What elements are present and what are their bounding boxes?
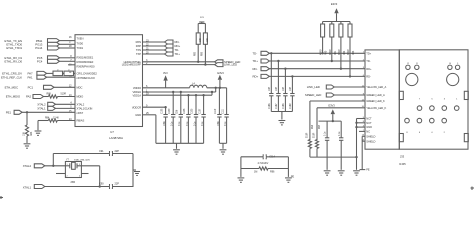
svg-text:RD-: RD- [366, 75, 371, 79]
svg-text:GND: GND [135, 113, 141, 117]
svg-text:SHIELD: SHIELD [366, 139, 375, 143]
svg-text:C107: C107 [199, 108, 201, 114]
svg-text:C103: C103 [161, 108, 163, 114]
svg-text:3V3: 3V3 [163, 71, 168, 75]
svg-text:10P: 10P [268, 87, 271, 91]
svg-text:TD+: TD+ [253, 59, 259, 63]
svg-text:VDD1A: VDD1A [132, 93, 141, 97]
svg-text:RD-: RD- [253, 67, 258, 71]
svg-text:10P: 10P [275, 87, 278, 91]
svg-text:C108: C108 [184, 108, 186, 114]
svg-text:RXD1/MODE1: RXD1/MODE1 [77, 56, 94, 60]
svg-text:100n: 100n [218, 120, 220, 126]
svg-text:22P: 22P [115, 149, 120, 153]
svg-text:RBIAS: RBIAS [77, 119, 85, 123]
svg-text:PC4: PC4 [37, 60, 43, 64]
svg-text:GREEN_LED_A: GREEN_LED_A [366, 93, 385, 97]
svg-text:10K: 10K [22, 132, 25, 136]
svg-text:R91: R91 [334, 50, 337, 55]
svg-text:RXD0/MODE0: RXD0/MODE0 [77, 60, 94, 64]
svg-text:TXP: TXP [136, 52, 141, 56]
svg-text:YELLOW_LED_K: YELLOW_LED_K [366, 106, 386, 110]
svg-text:49R9: 49R9 [347, 49, 350, 55]
svg-text:25M: 25M [71, 181, 75, 184]
svg-text:XTAL1/CLKIN: XTAL1/CLKIN [77, 107, 93, 111]
svg-text:TD-: TD- [253, 51, 258, 55]
svg-text:49R9: 49R9 [329, 49, 332, 55]
svg-text:C100: C100 [169, 108, 171, 114]
svg-text:TD+: TD+ [175, 52, 181, 56]
svg-text:10P: 10P [289, 87, 292, 91]
svg-text:U7: U7 [110, 130, 114, 134]
svg-text:R96: R96 [270, 170, 275, 173]
svg-text:1M: 1M [254, 170, 257, 173]
svg-text:VDDCR: VDDCR [132, 105, 141, 109]
svg-text:4.7nF/2kV: 4.7nF/2kV [258, 162, 269, 165]
svg-text:PA2: PA2 [26, 95, 31, 99]
svg-text:SHIELD: SHIELD [366, 134, 375, 138]
svg-text:C187: C187 [275, 103, 278, 109]
svg-text:MDC: MDC [77, 85, 83, 89]
svg-text:11: 11 [416, 63, 418, 65]
svg-text:ETH1_TXD1: ETH1_TXD1 [6, 46, 22, 50]
svg-text:LINK_LED: LINK_LED [307, 85, 320, 89]
svg-text:C111: C111 [222, 108, 224, 114]
svg-text:ETH1_RX_D0: ETH1_RX_D0 [4, 60, 22, 64]
svg-text:C186: C186 [268, 103, 271, 109]
svg-text:PE: PE [291, 174, 295, 178]
svg-text:TXD1: TXD1 [77, 46, 84, 50]
svg-text:RJ45: RJ45 [399, 162, 406, 166]
svg-text:E3V3: E3V3 [217, 71, 224, 75]
svg-text:C110: C110 [215, 108, 217, 114]
svg-text:XTAL_25M_3225: XTAL_25M_3225 [74, 158, 91, 161]
svg-text:49R9: 49R9 [320, 49, 323, 55]
svg-text:RXER/PHYAD0: RXER/PHYAD0 [77, 64, 95, 68]
svg-text:PG14: PG14 [35, 46, 43, 50]
svg-text:XTAL2: XTAL2 [23, 164, 32, 168]
svg-text:TXN: TXN [136, 48, 141, 52]
svg-text:NCT: NCT [366, 117, 372, 121]
svg-text:E3V3: E3V3 [328, 104, 335, 108]
svg-text:TD+: TD+ [366, 51, 371, 55]
svg-text:C114: C114 [269, 155, 275, 159]
svg-text:RD+: RD+ [366, 67, 372, 71]
svg-text:510R: 510R [61, 93, 67, 96]
svg-text:C91: C91 [99, 149, 104, 153]
svg-text:9: 9 [457, 63, 458, 65]
svg-text:XTAL1: XTAL1 [37, 107, 46, 111]
svg-text:10K: 10K [207, 38, 209, 42]
svg-text:NCT: NCT [366, 121, 372, 125]
svg-text:nRST: nRST [77, 111, 84, 115]
svg-text:nINT/REFCLKO: nINT/REFCLKO [77, 76, 95, 80]
svg-text:C188: C188 [282, 103, 285, 109]
svg-text:C90: C90 [99, 182, 104, 186]
svg-text:PE: PE [366, 168, 370, 172]
svg-text:CRS_DV/MODE2: CRS_DV/MODE2 [77, 72, 98, 76]
svg-text:C189: C189 [289, 103, 292, 109]
svg-text:VDDIO: VDDIO [133, 86, 141, 90]
svg-text:3: 3 [79, 164, 80, 166]
svg-text:TD-: TD- [366, 59, 370, 63]
svg-text:PA1: PA1 [27, 75, 32, 79]
svg-text:GREEN_LED_K: GREEN_LED_K [366, 99, 385, 103]
svg-text:RXP: RXP [136, 44, 142, 48]
svg-text:J33: J33 [400, 155, 405, 159]
svg-text:LED1/nREGOFF: LED1/nREGOFF [122, 63, 142, 67]
svg-text:100n: 100n [164, 120, 166, 126]
svg-text:GND: GND [366, 125, 372, 129]
svg-text:XTAL2: XTAL2 [77, 102, 85, 106]
svg-text:2: 2 [67, 176, 68, 178]
svg-text:1: 1 [67, 164, 68, 166]
svg-text:LAN8720A: LAN8720A [109, 136, 123, 140]
svg-text:ETH_MDC: ETH_MDC [5, 86, 18, 90]
svg-text:12: 12 [407, 63, 409, 65]
svg-text:12.4K: 12.4K [53, 117, 59, 120]
svg-text:XTAL1: XTAL1 [23, 186, 32, 190]
svg-text:TXEN: TXEN [77, 37, 84, 41]
svg-text:NC: NC [366, 130, 370, 134]
svg-text:E3V3: E3V3 [331, 2, 338, 6]
svg-text:10P: 10P [282, 87, 285, 91]
svg-text:10K: 10K [200, 38, 202, 42]
svg-text:510R: 510R [306, 132, 308, 138]
svg-text:SPEED_LED: SPEED_LED [305, 93, 321, 97]
svg-text:10: 10 [449, 63, 451, 65]
svg-text:4: 4 [79, 176, 80, 178]
svg-text:PE1: PE1 [6, 110, 12, 114]
svg-text:C105: C105 [192, 108, 194, 114]
svg-text:LINK_LED: LINK_LED [224, 63, 237, 67]
svg-text:YELLOW_LED_A: YELLOW_LED_A [366, 85, 386, 89]
svg-text:ETH1_REF_CLK: ETH1_REF_CLK [1, 75, 22, 79]
svg-text:TXD0: TXD0 [77, 41, 84, 45]
svg-text:PC1: PC1 [28, 86, 34, 90]
svg-text:MDIO: MDIO [77, 95, 84, 99]
svg-text:ETH_MDIO: ETH_MDIO [6, 95, 21, 99]
svg-text:22P: 22P [115, 182, 120, 186]
svg-text:RD+: RD+ [253, 75, 259, 79]
svg-text:R83: R83 [30, 131, 33, 136]
svg-text:RXN: RXN [136, 40, 142, 44]
svg-text:510R: 510R [313, 132, 315, 138]
svg-text:R93: R93 [352, 50, 355, 55]
svg-text:49R9: 49R9 [338, 49, 341, 55]
